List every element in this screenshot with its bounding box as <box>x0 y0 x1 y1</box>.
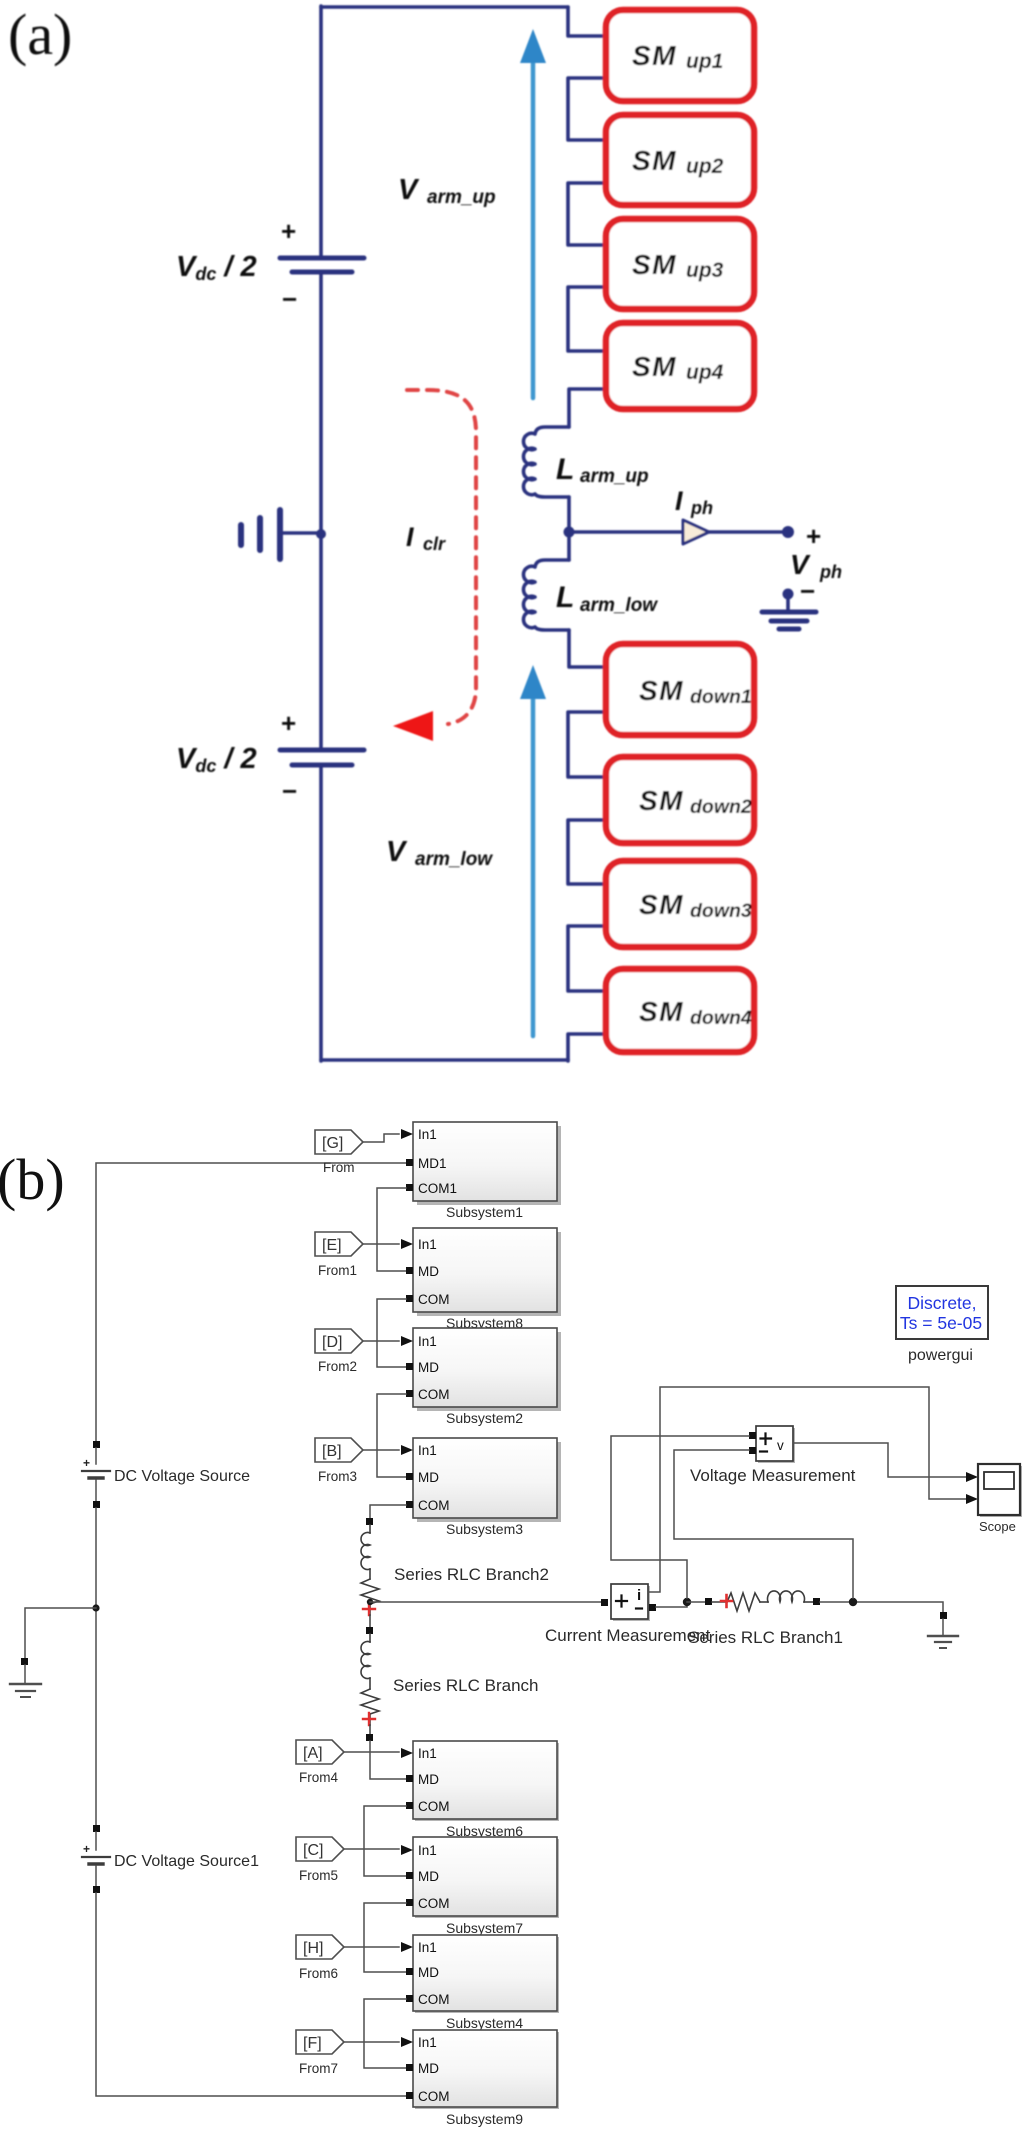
svg-text:MD: MD <box>418 1869 439 1884</box>
svg-text:up3: up3 <box>686 259 724 282</box>
svg-text:In1: In1 <box>418 1443 437 1458</box>
Subsystem9 block <box>401 2030 559 2127</box>
submodule SM up4 <box>606 323 754 409</box>
svg-text:Scope: Scope <box>979 1519 1016 1534</box>
node: phase-leg midpoint junction <box>564 527 575 538</box>
svg-text:From2: From2 <box>318 1359 357 1374</box>
svg-text:+: + <box>806 521 821 551</box>
red plus marker of Series RLC Branch <box>363 1713 375 1725</box>
svg-text:Subsystem3: Subsystem3 <box>446 1521 523 1537</box>
wire: left DC bus lower segment <box>319 766 323 1061</box>
ground midpoint symbol (left) <box>241 510 321 559</box>
wire: left DC bus upper segment <box>319 6 323 256</box>
svg-text:SM: SM <box>632 40 677 71</box>
wire: SM up1 to SM up2 link <box>568 78 606 140</box>
Subsystem8 block <box>401 1228 561 1331</box>
svg-text:[H]: [H] <box>303 1940 323 1957</box>
svg-text:COM: COM <box>418 1896 450 1911</box>
wire: CM i output up over to Scope input 2 <box>648 1387 966 1592</box>
submodule SM up3 <box>606 219 754 309</box>
svg-text:[C]: [C] <box>303 1842 323 1859</box>
From tag [D] <box>315 1329 399 1374</box>
svg-text:SM: SM <box>632 145 677 176</box>
svg-text:[B]: [B] <box>322 1443 342 1460</box>
wire: left DC bus middle segment <box>319 273 323 749</box>
red plus marker of Series RLC Branch2 <box>363 1603 375 1615</box>
node: DC midpoint junction <box>316 529 326 539</box>
wire: VM plus input loop <box>611 1436 749 1598</box>
wire: COM3 down to Series RLC Branch2 <box>370 1505 406 1518</box>
svg-text:MD: MD <box>418 1470 439 1485</box>
svg-text:SM: SM <box>639 675 684 706</box>
svg-text:Subsystem7: Subsystem7 <box>446 1920 523 1936</box>
wire: to left ground <box>25 1608 96 1658</box>
wire: CM minus to junction <box>656 1602 687 1607</box>
svg-text:down4: down4 <box>690 1007 752 1029</box>
wire: left bus mid segment <box>95 1508 97 1825</box>
ground block (left) <box>10 1658 41 1697</box>
svg-text:MD: MD <box>418 1772 439 1787</box>
svg-text:Discrete,: Discrete, <box>907 1293 976 1313</box>
wire: bottom horizontal bus <box>321 1058 568 1062</box>
svg-text:COM: COM <box>418 2089 450 2104</box>
wire: left bus bottom segment to COM9 <box>96 1893 407 2096</box>
wire: COM2 to MD of Subsystem3 <box>377 1394 406 1477</box>
svg-text:Subsystem9: Subsystem9 <box>446 2111 523 2127</box>
svg-text:Subsystem4: Subsystem4 <box>446 2015 523 2031</box>
svg-text:up1: up1 <box>686 50 723 73</box>
red plus marker of Series RLC Branch1 <box>721 1595 732 1607</box>
Series RLC Branch2 (vertical R-L) <box>361 1518 379 1615</box>
svg-text:I: I <box>406 522 414 552</box>
node: phase output terminal <box>782 526 794 538</box>
wire: branch1 to right ground <box>820 1602 943 1612</box>
From tag [A] <box>296 1740 399 1785</box>
Subsystem7 block <box>401 1837 559 1936</box>
Subsystem2 block <box>401 1328 561 1426</box>
svg-text:arm_up: arm_up <box>427 187 496 208</box>
submodule SM down1 <box>606 644 754 735</box>
inductor L_arm_up <box>523 427 569 497</box>
svg-text:V: V <box>386 836 408 868</box>
From tag [F] <box>296 2030 399 2076</box>
svg-text:In1: In1 <box>418 1940 437 1955</box>
svg-text:L: L <box>556 453 574 486</box>
Subsystem3 block <box>401 1438 561 1537</box>
battery V2 lower Vdc/2: long plate <box>280 748 364 753</box>
inductor L_arm_low <box>523 560 569 630</box>
svg-text:i: i <box>637 1587 641 1604</box>
svg-text:−: − <box>282 284 297 314</box>
wire: COM6 to MD of Subsystem7 <box>364 1806 406 1876</box>
svg-text:arm_low: arm_low <box>580 595 658 616</box>
wire: SM up4 down to upper arm inductor <box>569 389 606 427</box>
svg-text:arm_up: arm_up <box>580 466 649 487</box>
arrowhead I_clr (red) <box>393 711 433 741</box>
svg-text:SM: SM <box>639 996 684 1027</box>
DC Voltage Source1 block <box>82 1825 110 1893</box>
svg-text:Ts = 5e-05: Ts = 5e-05 <box>900 1313 982 1333</box>
svg-text:MD: MD <box>418 1965 439 1980</box>
Voltage Measurement block <box>690 1426 856 1485</box>
svg-text:powergui: powergui <box>908 1347 973 1364</box>
svg-text:[A]: [A] <box>303 1745 323 1762</box>
svg-text:SM: SM <box>639 785 684 816</box>
wire: COM4 to MD of Subsystem9 <box>364 1999 406 2068</box>
powergui block <box>896 1286 988 1364</box>
svg-text:In1: In1 <box>418 1746 437 1761</box>
svg-text:up4: up4 <box>686 361 724 384</box>
Scope block <box>978 1464 1022 1534</box>
svg-text:+: + <box>83 1842 90 1856</box>
svg-text:From5: From5 <box>299 1868 338 1883</box>
wire: SM down1 to SM down2 link <box>568 712 606 777</box>
svg-text:From6: From6 <box>299 1966 338 1981</box>
arrow V_arm_up (blue) <box>531 58 536 398</box>
svg-text:COM: COM <box>418 1292 450 1307</box>
svg-text:From3: From3 <box>318 1469 357 1484</box>
battery V2 lower Vdc/2: short plate <box>292 763 352 768</box>
wire: SM down2 to SM down3 link <box>568 820 606 884</box>
svg-text:COM: COM <box>418 1387 450 1402</box>
From tag [G] <box>315 1130 399 1175</box>
svg-text:−: − <box>282 776 297 806</box>
From tag [H] <box>296 1935 399 1981</box>
wire: junction to Series RLC Branch1 <box>687 1601 705 1603</box>
svg-text:COM1: COM1 <box>418 1181 457 1196</box>
svg-text:down1: down1 <box>690 686 752 708</box>
svg-text:From1: From1 <box>318 1263 357 1278</box>
wire: SM down3 to SM down4 link <box>568 926 606 991</box>
svg-text:I: I <box>675 486 683 516</box>
svg-text:[F]: [F] <box>303 2035 322 2052</box>
wire: SM up2 to SM up3 link <box>568 183 606 245</box>
submodule SM up2 <box>606 115 754 205</box>
wire: COM1 to MD of Subsystem8 <box>377 1188 406 1271</box>
svg-text:V: V <box>398 174 420 206</box>
wire: main line from branch2 to Current Measurement <box>370 1601 601 1603</box>
svg-text:SM: SM <box>632 249 677 280</box>
Series RLC Branch1 (horizontal R-L) <box>705 1591 820 1611</box>
wire: branch to MD of Subsystem6 <box>370 1741 406 1779</box>
submodule SM up1 <box>606 10 754 101</box>
svg-text:Series RLC Branch2: Series RLC Branch2 <box>394 1565 549 1584</box>
current marker I_ph triangle <box>683 520 709 544</box>
submodule SM down3 <box>606 861 754 947</box>
From tag [E] <box>315 1232 399 1278</box>
node: branch2 / main-line junction <box>367 1599 373 1605</box>
wire: VM minus input loop <box>674 1450 853 1598</box>
Subsystem6 block <box>401 1741 559 1839</box>
svg-text:−: − <box>800 576 815 606</box>
svg-text:Series RLC Branch1: Series RLC Branch1 <box>688 1628 843 1647</box>
wire: VM output to Scope input 1 <box>793 1443 966 1477</box>
svg-text:COM: COM <box>418 1992 450 2007</box>
wire: SM up3 to SM up4 link <box>568 287 606 351</box>
wire: left bus top segment to MD1 <box>96 1163 407 1441</box>
svg-text:MD1: MD1 <box>418 1156 447 1171</box>
svg-text:From7: From7 <box>299 2061 338 2076</box>
wire: top horizontal bus <box>321 5 568 9</box>
arrow V_arm_low (blue) <box>531 694 536 1036</box>
Current Measurement block <box>545 1584 711 1645</box>
wire: phase output <box>569 530 788 534</box>
wire: inductor L_arm_up to phase node <box>567 497 571 560</box>
svg-text:Vdc / 2: Vdc / 2 <box>176 743 257 776</box>
svg-text:DC Voltage Source: DC Voltage Source <box>114 1468 250 1485</box>
svg-text:(b): (b) <box>0 1147 65 1212</box>
svg-text:Voltage Measurement: Voltage Measurement <box>690 1466 856 1485</box>
circulating-current dashed loop I_clr <box>407 390 476 724</box>
svg-text:In1: In1 <box>418 1237 437 1252</box>
svg-text:[G]: [G] <box>322 1135 343 1152</box>
svg-text:Current Measurement: Current Measurement <box>545 1626 711 1645</box>
svg-text:ph: ph <box>690 498 713 518</box>
svg-text:SM: SM <box>632 351 677 382</box>
svg-text:v: v <box>777 1438 784 1453</box>
wire: COM7 to MD of Subsystem4 <box>364 1903 406 1972</box>
svg-text:COM: COM <box>418 1799 450 1814</box>
svg-text:ph: ph <box>819 562 842 582</box>
svg-text:Series RLC Branch: Series RLC Branch <box>393 1676 539 1695</box>
svg-text:In1: In1 <box>418 1843 437 1858</box>
submodule SM down4 <box>606 969 754 1052</box>
From tag [C] <box>296 1837 399 1883</box>
wire: COM8 to MD of Subsystem2 <box>377 1299 406 1367</box>
Series RLC Branch (vertical R-L) <box>361 1634 379 1725</box>
svg-text:MD: MD <box>418 2061 439 2076</box>
svg-text:[E]: [E] <box>322 1237 342 1254</box>
wire: inductor L_arm_low down into SM down1 <box>569 630 606 667</box>
Subsystem1 block <box>401 1122 561 1220</box>
ground block (right) <box>928 1612 958 1648</box>
svg-text:SM: SM <box>639 889 684 920</box>
svg-text:DC Voltage Source1: DC Voltage Source1 <box>114 1853 259 1870</box>
svg-text:MD: MD <box>418 1264 439 1279</box>
svg-text:(a): (a) <box>8 2 72 67</box>
svg-text:up2: up2 <box>686 155 724 178</box>
svg-text:down3: down3 <box>690 900 752 922</box>
node: bus-ground junction <box>92 1604 99 1611</box>
svg-text:In1: In1 <box>418 1127 437 1142</box>
svg-text:arm_low: arm_low <box>415 849 493 870</box>
svg-text:clr: clr <box>423 534 446 554</box>
Subsystem4 block <box>401 1935 559 2031</box>
svg-text:Vdc / 2: Vdc / 2 <box>176 251 257 284</box>
svg-text:From: From <box>323 1160 355 1175</box>
node: CM/branch1 junction <box>683 1598 691 1606</box>
svg-text:+: + <box>83 1456 90 1470</box>
svg-text:COM: COM <box>418 1498 450 1513</box>
battery V1 upper Vdc/2: short plate <box>292 270 352 275</box>
submodule SM down2 <box>606 757 754 843</box>
node: branch1/VM- junction <box>849 1598 857 1606</box>
DC Voltage Source block <box>82 1441 110 1508</box>
battery V1 upper Vdc/2: long plate <box>280 256 364 261</box>
ground symbol at phase output <box>762 589 816 630</box>
svg-text:In1: In1 <box>418 1334 437 1349</box>
svg-text:+: + <box>281 708 296 738</box>
svg-text:MD: MD <box>418 1360 439 1375</box>
svg-text:In1: In1 <box>418 2035 437 2050</box>
svg-text:Subsystem2: Subsystem2 <box>446 1410 523 1426</box>
svg-text:Subsystem1: Subsystem1 <box>446 1204 523 1220</box>
wire: top-right drop into SM up1 <box>568 7 606 36</box>
svg-text:L: L <box>556 581 574 614</box>
svg-text:down2: down2 <box>690 796 752 818</box>
wire: SM down4 to bottom bus <box>568 1034 606 1061</box>
svg-text:+: + <box>281 216 296 246</box>
svg-text:[D]: [D] <box>322 1334 342 1351</box>
From tag [B] <box>315 1438 399 1484</box>
svg-text:From4: From4 <box>299 1770 338 1785</box>
